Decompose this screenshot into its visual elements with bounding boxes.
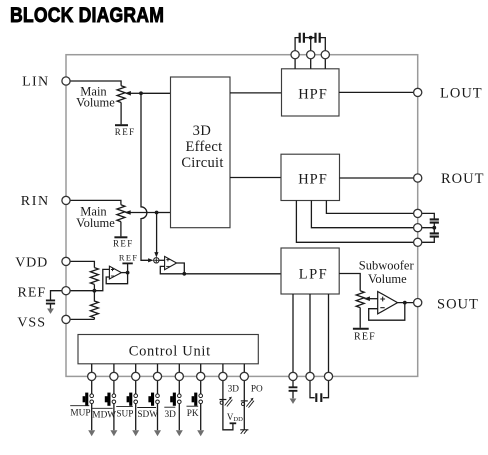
svg-text:3D: 3D [193, 123, 212, 139]
pin circles [62, 51, 422, 381]
wire C1 to ground arrow [50, 304, 52, 310]
svg-text:REF: REF [18, 285, 47, 300]
svg-text:MUP: MUP [70, 409, 90, 419]
pin top 2 [307, 51, 315, 59]
3D effect circuit block [171, 77, 231, 228]
svg-text:VDD: VDD [15, 255, 48, 270]
wire RIN to main volume R2 top [66, 200, 121, 204]
pin 3D switch [175, 372, 183, 380]
wire R5 to REF bar [359, 308, 361, 328]
pin top 3 [321, 51, 329, 59]
svg-text:LPF: LPF [299, 266, 329, 282]
switch SW6 PK [187, 376, 205, 436]
capacitor C1 on REF [46, 300, 55, 303]
pin 3D select [219, 372, 227, 380]
wire HPF2 output to ROUT [340, 177, 418, 179]
wire 3D out L to HPF1 [230, 92, 282, 94]
resistor R4 divider bottom [90, 291, 98, 320]
wire VDD to divider [66, 261, 94, 267]
svg-text:LOUT: LOUT [440, 86, 483, 102]
svg-text:PK: PK [187, 409, 199, 419]
wiper arrow into R2 [130, 212, 157, 214]
pin LPF 2 [306, 372, 314, 380]
switch SW1 MUP [70, 376, 95, 436]
pin MUP [88, 372, 96, 380]
wire U1 output to REF rail bar [127, 263, 129, 272]
svg-text:SDW: SDW [137, 410, 158, 420]
svg-text:Volume: Volume [368, 272, 407, 286]
wire R3 to REF node [93, 284, 95, 290]
pin LPF 1 [289, 372, 297, 380]
pin REF [62, 287, 70, 295]
svg-text:Volume: Volume [76, 95, 115, 109]
HPF1 top pin wires [295, 38, 325, 69]
svg-text:3D: 3D [228, 384, 240, 394]
wires to cap C7 [310, 376, 315, 397]
svg-text:ROUT: ROUT [441, 171, 484, 187]
wire U1 output [121, 272, 127, 274]
LPF block [281, 248, 339, 294]
VDD rail symbol [230, 422, 237, 424]
node REF divider [93, 289, 97, 293]
3D select jumper pin [219, 380, 243, 429]
PO jumper pin [240, 380, 263, 433]
svg-text:SUP: SUP [116, 409, 133, 419]
svg-text:3D: 3D [165, 410, 177, 420]
wire U3 output to SOUT [398, 302, 418, 304]
wire LIN to main volume R1 top [66, 81, 121, 86]
pin SDW [153, 372, 161, 380]
HPF2 block [281, 154, 340, 200]
resistor R3 divider top [90, 268, 98, 285]
pin SOUT [414, 299, 422, 307]
pin VSS [62, 315, 70, 323]
capacitor C7 [316, 393, 321, 402]
HPF1 block [282, 69, 340, 116]
node top rail [309, 36, 313, 40]
IC outer boundary box [66, 55, 418, 377]
node U2 output [182, 272, 186, 276]
U2 feedback wire [160, 266, 184, 273]
control unit block [78, 335, 258, 364]
svg-text:Effect: Effect [186, 139, 223, 155]
node B (RIN wiper junction) [155, 211, 159, 215]
wire REF node to op-amp U1 input [94, 269, 109, 290]
svg-text:LIN: LIN [22, 75, 49, 90]
pin cap C [414, 238, 422, 246]
REF rail bar at U1 [122, 262, 132, 264]
U3 feedback wire [369, 303, 405, 321]
op-amp U2 subwoofer mixer [165, 256, 177, 269]
svg-text:Circuit: Circuit [181, 155, 223, 171]
HPF2 bottom pin wires to right edge pins [326, 201, 417, 214]
wire REF pin to node [66, 290, 94, 292]
wire node A to 3D effect circuit input L [141, 92, 171, 94]
pin PK [197, 372, 205, 380]
ground arrow under C1 [47, 309, 54, 314]
wire node A down with hop over RIN wiper [141, 93, 149, 260]
node U1 output [126, 271, 130, 275]
pin SUP [132, 372, 140, 380]
svg-text:VSS: VSS [17, 315, 46, 330]
REF bar under R5 [353, 328, 369, 330]
svg-text:VDD: VDD [227, 412, 243, 423]
summing node circle [154, 258, 159, 263]
U1 feedback wire [106, 273, 127, 284]
wire R1 bottom to REF bar [120, 103, 122, 125]
svg-text:HPF: HPF [298, 87, 328, 103]
pin PO [240, 372, 248, 380]
switch SW2 MDW [92, 376, 117, 436]
svg-text:REF: REF [113, 238, 134, 248]
pin LPF 3 [324, 372, 332, 380]
wire HPF1 output to LOUT [339, 91, 418, 93]
svg-text:RIN: RIN [21, 194, 50, 209]
wiper arrow into R5 [369, 298, 378, 300]
wiper arrow into R1 [130, 92, 142, 94]
pin LOUT [414, 88, 422, 96]
resistor R5 subwoofer volume [356, 291, 364, 308]
node U3 output [403, 301, 407, 305]
switch SW5 3D [164, 376, 183, 436]
capacitor C6 [289, 387, 298, 391]
op-amp U3 subwoofer buffer [378, 292, 398, 314]
pin VDD [62, 257, 70, 265]
wire R4 to VSS [66, 318, 94, 320]
pin RIN [62, 196, 70, 204]
svg-text:MDW: MDW [92, 411, 116, 421]
pin cap B [414, 224, 422, 232]
svg-text:Control Unit: Control Unit [129, 344, 211, 360]
resistor R1 main volume left [117, 86, 125, 103]
svg-text:REF: REF [119, 254, 139, 263]
svg-text:Subwoofer: Subwoofer [359, 259, 415, 273]
node A (LIN wiper junction) [139, 91, 143, 95]
switch SW4 SDW [137, 376, 161, 436]
wire REF pin to external cap C1 [51, 291, 67, 300]
wire LPF output to subwoofer volume [339, 274, 360, 291]
switch SW3 SUP [116, 376, 139, 436]
capacitor C4 right top [430, 219, 439, 222]
capacitor C5 right bottom [430, 233, 439, 236]
svg-text:REF: REF [354, 331, 376, 342]
ground hatch [240, 429, 248, 431]
REF bar under R2 [114, 236, 127, 238]
wire node B down to summer [156, 213, 158, 253]
wire U2 out to LPF input [184, 273, 281, 275]
capacitor C2 top left [300, 33, 304, 43]
pin LIN [62, 77, 70, 85]
wire summer to op-amp U2 [159, 259, 164, 261]
svg-text:SOUT: SOUT [437, 296, 479, 312]
control unit pin wires [92, 364, 245, 377]
svg-text:PO: PO [251, 385, 263, 395]
svg-text:Volume: Volume [76, 216, 115, 230]
op-amp U1 REF buffer [109, 266, 121, 279]
arrowhead into summer from left [148, 258, 153, 262]
wire U2 output down to LPF line [177, 263, 185, 274]
resistor R2 main volume right [117, 205, 125, 222]
wire node B to 3D effect circuit input R [157, 212, 171, 214]
arrowhead into summer from top [154, 252, 158, 257]
right side cap wires [418, 213, 435, 219]
wire pin to cap C6 [292, 376, 294, 387]
pin top 1 [291, 51, 299, 59]
capacitor C3 top right [316, 33, 320, 43]
wire R2 bottom to REF bar [120, 222, 122, 237]
LPF bottom wires [293, 294, 329, 376]
ground arrow under C6 [290, 399, 297, 404]
pin MDW [110, 372, 118, 380]
REF bar under R1 [115, 124, 128, 126]
pin ROUT [414, 174, 422, 182]
node right caps [432, 226, 436, 230]
wire 3D out R to HPF2 [230, 177, 281, 179]
svg-text:HPF: HPF [298, 171, 328, 187]
pin cap A [414, 209, 422, 217]
svg-text:REF: REF [115, 127, 136, 137]
